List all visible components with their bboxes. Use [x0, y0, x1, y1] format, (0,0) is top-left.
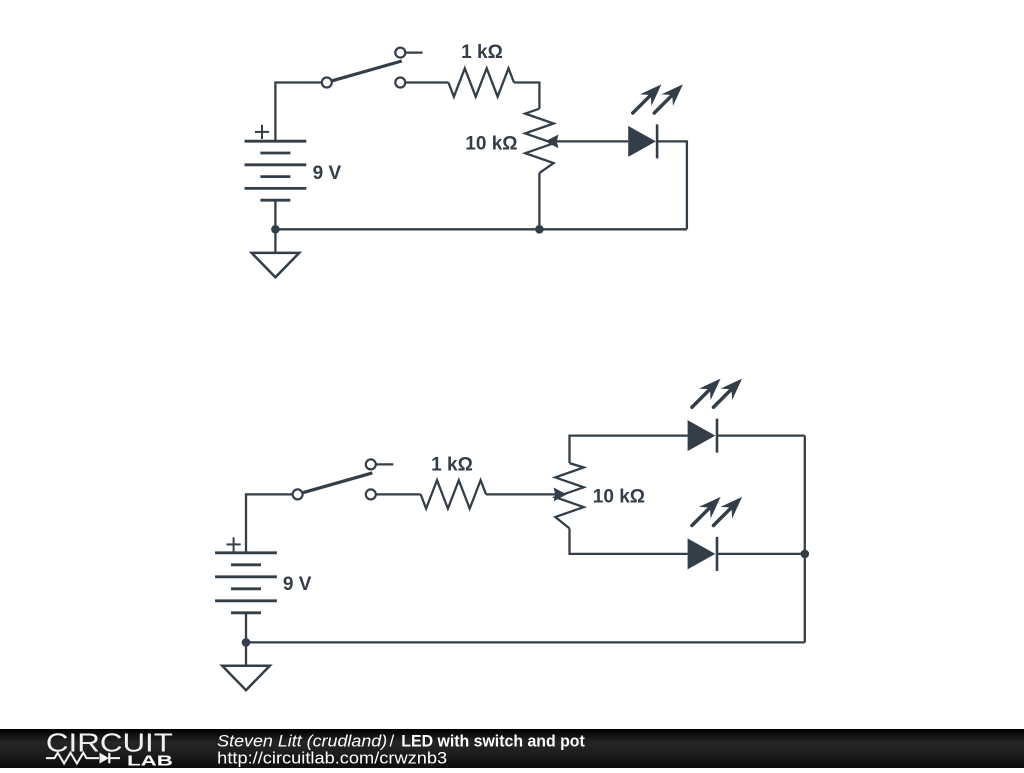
potentiometer R4 body [555, 463, 583, 528]
LED D2 [688, 419, 717, 453]
wire pot R2 bottom leg [538, 173, 540, 229]
svg-text:9 V: 9 V [313, 163, 342, 184]
wire LED D1 cathode to bottom rail [657, 141, 687, 229]
wire battery V2 top to switch SW2 [246, 494, 293, 552]
wire battery V1 bottom to ground [274, 200, 276, 253]
junction node LED D3 / right rail [801, 550, 810, 559]
wire battery V1 top to switch [275, 83, 321, 142]
svg-text:1 kΩ: 1 kΩ [461, 42, 503, 63]
potentiometer R2 body [525, 109, 553, 173]
junction node pot R2 / rail [535, 225, 544, 234]
wire LED D3 cathode to right rail [717, 553, 805, 555]
wire bottom rail bottom circuit [246, 641, 805, 643]
wire right rail [804, 436, 806, 643]
wire switch SW1 to resistor R1 [406, 81, 449, 83]
battery V2 [215, 553, 277, 613]
wire pot R4 bottom to LED D3 [570, 528, 688, 554]
junction node battery V2 / rail [242, 638, 251, 647]
switch SW2 [293, 459, 394, 499]
switch SW1 [322, 48, 423, 88]
LED D3 [688, 537, 717, 571]
wire pot R4 top to LED D2 [570, 436, 688, 464]
LED D1 [628, 124, 657, 158]
svg-text:LED with switch and pot: LED with switch and pot [401, 731, 585, 750]
LED D1 light arrow 1 [627, 79, 667, 119]
resistor R1 [448, 68, 514, 96]
potentiometer R2 wiper arrow [545, 135, 628, 149]
battery V1 plus label [255, 125, 269, 139]
junction node battery V1 / rail [271, 225, 280, 234]
battery V1 [245, 141, 307, 200]
svg-text:1 kΩ: 1 kΩ [431, 455, 473, 476]
footer bar [0, 729, 1024, 768]
logo resistor-diode doodle [46, 753, 120, 764]
resistor R3 [421, 480, 486, 508]
svg-text:9 V: 9 V [283, 574, 312, 595]
svg-text:/: / [390, 731, 395, 750]
wire bottom rail top circuit [275, 228, 687, 230]
battery V2 plus label [227, 537, 241, 551]
wire switch SW2 to resistor R3 [376, 493, 421, 495]
svg-text:10 kΩ: 10 kΩ [593, 487, 645, 508]
svg-text:http://circuitlab.com/crwznb3: http://circuitlab.com/crwznb3 [217, 749, 447, 768]
svg-text:Steven Litt (crudland): Steven Litt (crudland) [217, 731, 387, 750]
wire battery V2 bottom to ground [245, 613, 247, 666]
LED D1 light arrow 2 [648, 79, 688, 119]
svg-text:10 kΩ: 10 kΩ [465, 134, 517, 155]
LED D3 light arrow 1 [686, 491, 726, 531]
wire LED D2 cathode to right rail [717, 434, 805, 436]
ground GND1 [252, 253, 300, 277]
LED D3 light arrow 2 [708, 491, 748, 531]
svg-text:LAB: LAB [127, 752, 173, 768]
LED D2 light arrow 2 [708, 373, 748, 413]
wire resistor R1 to pot R2 [514, 83, 539, 109]
wire resistor R3 to pot R4 wiper [486, 488, 567, 502]
ground GND2 [222, 666, 270, 690]
LED D2 light arrow 1 [686, 373, 726, 413]
